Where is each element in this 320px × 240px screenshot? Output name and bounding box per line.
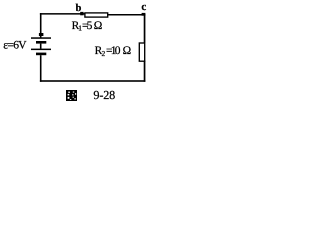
- wire bottom: [40, 80, 145, 82]
- label R1=5ohm: [72, 20, 103, 33]
- junction dot at c: [142, 13, 146, 16]
- svg-text:2: 2: [102, 49, 106, 58]
- resistor R1: [85, 13, 108, 17]
- svg-text:Ω: Ω: [94, 20, 103, 32]
- resistor R2: [139, 43, 144, 61]
- wire left vertical upper: [40, 13, 42, 33]
- wire right vertical lower (R2 to bottom): [144, 61, 146, 82]
- junction dot at b: [80, 12, 83, 15]
- wire right vertical upper (c to R2): [144, 14, 146, 43]
- inter-cell wire: [40, 44, 42, 49]
- cell1 long thin plate (+): [31, 37, 51, 39]
- svg-text:ε=6V: ε=6V: [3, 40, 27, 52]
- svg-text:c: c: [141, 1, 146, 13]
- svg-text:=10: =10: [106, 45, 121, 57]
- caption hanzi tu (figure): [66, 90, 77, 101]
- label R2=10ohm: [95, 45, 132, 58]
- wire left vertical lower (battery to bottom): [40, 55, 42, 82]
- cell2 short thick plate (-): [36, 53, 46, 56]
- wire top-left segment (a to b): [40, 13, 85, 15]
- cell2 long thin plate (+): [31, 49, 51, 51]
- svg-text:9-28: 9-28: [93, 88, 115, 102]
- battery epsilon (2-cell pack): [31, 33, 51, 55]
- wire top-right segment (R1 to c): [108, 14, 146, 16]
- cell1 short thick plate (-): [36, 41, 46, 44]
- svg-text:=5: =5: [82, 20, 93, 32]
- terminal nub: [39, 33, 44, 36]
- wire nub to plate: [40, 33, 42, 38]
- svg-text:Ω: Ω: [123, 45, 132, 57]
